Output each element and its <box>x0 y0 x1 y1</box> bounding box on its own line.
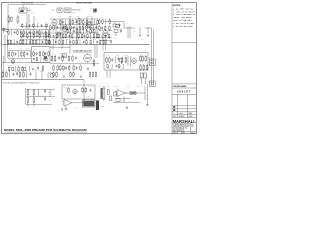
wire <box>128 56 131 66</box>
resistor R52 <box>27 90 29 97</box>
wire <box>115 97 131 103</box>
label row1M mid <box>51 21 96 41</box>
svg-text:n942: n942 <box>90 7 93 9</box>
row1L comps c <box>7 39 50 45</box>
svg-text:OF 1: OF 1 <box>191 126 194 128</box>
connector CON3 <box>64 8 71 12</box>
transformer T1 <box>83 99 96 107</box>
box lower <box>116 99 125 103</box>
svg-text:K27MV: K27MV <box>116 55 120 57</box>
sheet label left <box>22 2 33 4</box>
svg-text:9nK7uC: 9nK7uC <box>98 85 102 87</box>
svg-text:MODEL 5881/4880: MODEL 5881/4880 <box>76 3 92 5</box>
label row3 upper <box>4 69 41 72</box>
label psu <box>64 87 90 98</box>
wire <box>58 24 98 26</box>
label row1M top <box>58 15 91 17</box>
titleblock name row <box>172 85 197 88</box>
resistor R54 <box>27 98 29 105</box>
connector P3 <box>149 57 156 66</box>
svg-text:RVVR: RVVR <box>140 63 143 65</box>
svg-text:RKK: RKK <box>146 98 149 100</box>
bus B+ <box>2 44 150 46</box>
row2L comps <box>8 51 30 63</box>
tube V1B <box>63 25 68 32</box>
titleblock bottom row <box>172 132 197 135</box>
resistor pair RA <box>53 71 58 77</box>
svg-text:KnX.8n: KnX.8n <box>88 85 92 87</box>
wire <box>50 27 98 29</box>
svg-text:5. DO NOT ADJ BIAS: 5. DO NOT ADJ BIAS <box>173 25 194 28</box>
box fsw mid <box>119 59 123 68</box>
svg-text:1789: 1789 <box>31 65 34 67</box>
label 2M <box>100 105 105 108</box>
label top1 <box>30 11 35 14</box>
resistor R39 <box>93 60 95 67</box>
row1L comps a <box>8 30 50 36</box>
arrow A2 <box>147 27 148 37</box>
ground G6 <box>32 68 34 71</box>
resistor R55 <box>33 98 35 105</box>
svg-text:709KR: 709KR <box>100 17 104 19</box>
ground G3 <box>87 67 89 70</box>
svg-text:6XR: 6XR <box>42 49 44 51</box>
wire <box>2 29 50 31</box>
label c3x <box>107 90 111 105</box>
wire <box>33 16 35 30</box>
svg-text:043M: 043M <box>87 96 90 98</box>
wire <box>8 27 50 44</box>
wire <box>104 22 135 29</box>
label a3 <box>113 18 128 25</box>
resistor R3 <box>17 15 19 24</box>
diode D6 <box>119 23 121 27</box>
connector CON2 <box>52 8 62 12</box>
svg-text:65CV.53: 65CV.53 <box>72 12 77 14</box>
svg-text:X47: X47 <box>126 23 128 25</box>
capacitor C9 <box>0 0 1 1</box>
row2 fsw right <box>140 55 147 62</box>
resistor R53 <box>33 90 35 97</box>
row1M comps z <box>98 33 110 39</box>
row1M comps d <box>49 33 98 39</box>
enclosure FSW <box>104 53 148 71</box>
svg-text:.86C: .86C <box>141 38 144 40</box>
app row text <box>173 115 193 118</box>
resistor R64 <box>82 87 84 93</box>
svg-text:J1: J1 <box>29 9 31 11</box>
svg-text:3MM4: 3MM4 <box>93 108 97 110</box>
svg-text:5593: 5593 <box>26 48 29 50</box>
label r3b <box>48 99 52 102</box>
resistor R65 <box>85 87 87 93</box>
svg-text:u4n: u4n <box>53 22 55 24</box>
wire <box>27 14 29 30</box>
tube V7 <box>73 88 77 95</box>
svg-text:MR0u2: MR0u2 <box>121 100 125 102</box>
wire <box>8 49 31 51</box>
wire <box>2 62 50 64</box>
resistor R67 <box>113 25 122 40</box>
notes text <box>173 7 196 28</box>
svg-text:KR3: KR3 <box>51 98 54 100</box>
tube V2A <box>57 31 61 37</box>
logo MARSHALL <box>173 119 196 124</box>
svg-text:5881ET: 5881ET <box>177 90 191 93</box>
row1M comps a <box>59 20 98 25</box>
label heater <box>93 108 97 110</box>
resistor R61 <box>68 55 70 62</box>
wire <box>50 36 112 38</box>
wire <box>25 88 50 104</box>
label fsw <box>106 55 128 57</box>
label fsw lower <box>140 63 143 65</box>
resistor triple RC <box>89 71 97 77</box>
row2M lower c <box>63 65 70 71</box>
resistor R68 <box>110 96 112 101</box>
label row1L2 <box>3 36 5 42</box>
svg-text:6L6GC/5881: 6L6GC/5881 <box>72 9 81 11</box>
svg-text:uX.6C: uX.6C <box>8 65 11 67</box>
sub-circuit box BIAS <box>32 47 51 63</box>
wire <box>50 63 99 65</box>
tube V3A <box>103 29 108 37</box>
tube V1A <box>52 19 57 27</box>
wire <box>50 46 70 48</box>
bus HT <box>2 80 84 106</box>
wire <box>3 35 7 78</box>
label row1L <box>21 37 47 40</box>
connector P5 <box>140 73 146 84</box>
resistor R60 <box>42 65 44 71</box>
relay RLY2 <box>125 92 145 95</box>
svg-text:u1Ku1: u1Ku1 <box>106 55 110 57</box>
svg-text:7X15: 7X15 <box>59 53 62 55</box>
svg-text:MARSHALL: MARSHALL <box>173 119 196 124</box>
tube V5B <box>132 57 137 64</box>
svg-text:0K2: 0K2 <box>19 61 21 63</box>
svg-text:R5K: R5K <box>149 57 152 59</box>
address block <box>172 123 194 132</box>
wire <box>128 26 130 38</box>
svg-text:59RCX: 59RCX <box>76 15 80 17</box>
svg-text:2R4nK: 2R4nK <box>88 15 92 17</box>
label b1 lower specks <box>8 65 27 67</box>
label diode D1 <box>108 68 124 70</box>
svg-text:CKn: CKn <box>74 22 77 24</box>
svg-text:..1M: ..1M <box>75 70 77 72</box>
row1M comps c <box>67 29 97 34</box>
svg-text:0296: 0296 <box>38 70 41 72</box>
label row1R <box>133 31 144 41</box>
capacitor C11 <box>75 56 77 59</box>
rev marks <box>173 106 175 111</box>
svg-text:u29: u29 <box>93 22 95 24</box>
svg-text:1u5u: 1u5u <box>92 61 95 63</box>
label row2M specks <box>61 61 95 72</box>
arrow A1 <box>139 27 140 37</box>
lamp LP1 <box>48 73 54 78</box>
svg-text:28Mn7: 28Mn7 <box>69 15 73 17</box>
svg-text:MC.5: MC.5 <box>113 34 116 36</box>
arrow A4 <box>80 75 81 78</box>
wire <box>53 45 70 55</box>
wire <box>50 32 98 34</box>
row3 upper comps <box>2 71 32 78</box>
svg-text:POWER AMP SECTION: POWER AMP SECTION <box>73 49 92 52</box>
row1M comps y <box>99 25 111 31</box>
row1M comps b <box>50 25 98 31</box>
svg-text:X552n9: X552n9 <box>126 85 130 87</box>
label b1 top <box>21 15 39 21</box>
resistor R58 <box>103 86 105 101</box>
row2 fsw lower <box>140 64 148 71</box>
svg-text:V465: V465 <box>19 48 22 50</box>
resistor pair RB <box>70 71 75 77</box>
diode D5 <box>44 97 46 101</box>
svg-text:71C3n: 71C3n <box>124 55 128 57</box>
wire <box>147 84 149 103</box>
tube V4A <box>11 59 15 65</box>
op-amp U2 <box>115 90 127 97</box>
wire <box>20 32 50 34</box>
box small <box>114 92 117 96</box>
arrow A5 <box>61 108 62 111</box>
notes box <box>172 3 197 134</box>
row2M lower a <box>53 65 61 72</box>
ground G7 <box>65 106 67 110</box>
svg-text:5MRX: 5MRX <box>4 70 8 72</box>
heading rectifier <box>88 84 141 87</box>
row2M comps <box>51 55 63 62</box>
capacitor C10 <box>37 66 39 69</box>
wire <box>99 30 112 32</box>
tube V5A <box>84 53 92 63</box>
svg-text:83K2: 83K2 <box>64 87 67 89</box>
wire <box>74 102 84 104</box>
row1L comps a2 <box>21 23 47 28</box>
svg-text:2.6.04: 2.6.04 <box>179 113 183 115</box>
titleblock model <box>172 90 197 94</box>
connector CON1 <box>19 8 31 13</box>
svg-text:CMCX3: CMCX3 <box>61 68 65 70</box>
drawing title <box>4 129 87 132</box>
wire <box>36 70 42 80</box>
svg-text:SH 1: SH 1 <box>191 124 194 126</box>
svg-text:M0u: M0u <box>133 31 136 33</box>
row1M comps e <box>49 40 112 45</box>
row2 fsw comps <box>106 57 127 64</box>
wire <box>103 35 106 51</box>
wire <box>100 40 112 42</box>
resistor R57 <box>108 90 110 95</box>
tube V2B <box>77 17 82 24</box>
wire <box>20 39 50 41</box>
tube V2C <box>87 21 92 28</box>
row2M lower b <box>73 65 81 72</box>
svg-text:XVn9: XVn9 <box>25 70 28 72</box>
row2L lower comps <box>8 66 29 72</box>
wire <box>26 96 55 98</box>
rect bar dark <box>101 88 103 99</box>
label row2M top specks <box>52 52 62 55</box>
svg-text:VK9: VK9 <box>51 90 54 92</box>
heading power amp <box>73 49 92 52</box>
svg-text:35u: 35u <box>25 65 27 67</box>
row2 fsw comps b <box>107 64 123 69</box>
label b1 extra <box>31 65 42 73</box>
svg-text:MODEL 5881~4880 PREAMP PCB SCH: MODEL 5881~4880 PREAMP PCB SCHEMATIC DIA… <box>4 129 87 132</box>
wire <box>8 58 31 60</box>
svg-text:62M: 62M <box>87 30 89 32</box>
sub-circuit box PSU <box>62 85 95 99</box>
label top2 <box>72 9 81 13</box>
notes title <box>173 5 181 7</box>
label top3 <box>90 7 93 9</box>
row1M comps x <box>99 19 111 25</box>
wire <box>95 45 97 59</box>
titleblock rev grid <box>172 94 197 117</box>
resistor R62 <box>72 55 74 62</box>
wire <box>26 104 52 107</box>
resistor R16 <box>113 22 117 27</box>
titleblock top line <box>172 83 197 85</box>
wire <box>144 86 146 100</box>
svg-text:413n: 413n <box>51 39 54 41</box>
sheet label centre <box>76 3 92 5</box>
svg-text:4VV: 4VV <box>107 90 109 92</box>
label row1M right <box>100 17 110 20</box>
ground G4 <box>146 103 148 106</box>
arrow A3 <box>63 75 64 78</box>
resistor R63 <box>68 87 70 93</box>
long verticals <box>31 17 93 45</box>
svg-text:Knu: Knu <box>146 95 148 97</box>
wire <box>113 102 140 104</box>
resistor R1 <box>8 15 10 23</box>
connector CON5 <box>62 54 66 58</box>
label under psu <box>74 107 77 109</box>
svg-text:PCB/FILM NAME: PCB/FILM NAME <box>173 85 187 88</box>
wire <box>107 70 110 78</box>
svg-text:V850: V850 <box>66 39 69 41</box>
svg-text:633: 633 <box>84 22 86 24</box>
label r3a <box>48 91 52 94</box>
op-amp U1 <box>62 100 74 107</box>
resistor R2 <box>11 17 13 22</box>
svg-text:P1: P1 <box>52 10 54 12</box>
svg-text:7.V3: 7.V3 <box>107 17 110 19</box>
svg-text:21n: 21n <box>63 30 65 32</box>
row1L comps b <box>21 33 50 38</box>
rail labels <box>51 86 54 100</box>
svg-text:ISS.2 JUL.04: ISS.2 JUL.04 <box>22 2 33 4</box>
note line <box>3 82 39 85</box>
svg-text:RR0RuX: RR0RuX <box>106 85 111 87</box>
capacitor C12 <box>89 89 91 92</box>
wire <box>26 88 55 90</box>
wire <box>145 28 154 86</box>
capacitor C30 <box>93 8 97 12</box>
bias box comps <box>33 48 50 62</box>
label rail right <box>146 95 149 100</box>
connector P4 <box>149 81 155 86</box>
diode D4 <box>44 89 46 93</box>
svg-text:VX3C: VX3C <box>113 22 116 24</box>
ground G5 <box>126 106 128 109</box>
wire <box>8 5 46 30</box>
input jack J2 <box>3 28 8 35</box>
svg-text:K80: K80 <box>52 30 54 32</box>
wire <box>20 36 50 38</box>
svg-text:77VC: 77VC <box>74 107 77 109</box>
svg-text:.2866: .2866 <box>58 15 61 17</box>
label b1 specks <box>9 47 29 50</box>
svg-text:DWG NO: DWG NO <box>173 133 178 135</box>
svg-text:REV 2: REV 2 <box>191 133 195 135</box>
choke T2 <box>96 100 99 110</box>
wire <box>49 41 51 45</box>
rev row text <box>173 112 192 115</box>
svg-text:SHT 1: SHT 1 <box>182 133 186 135</box>
svg-text:M8V: M8V <box>73 30 76 32</box>
wire <box>50 18 98 20</box>
